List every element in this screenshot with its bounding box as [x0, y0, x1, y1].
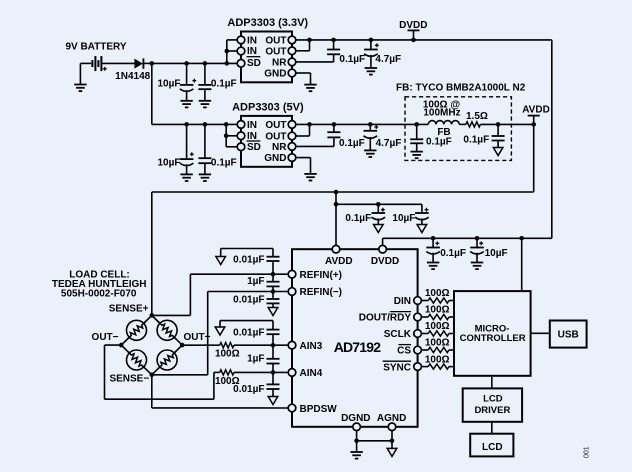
label 10µF (C1) [158, 78, 181, 89]
svg-text:10µF: 10µF [485, 248, 508, 259]
svg-text:SENSE+: SENSE+ [109, 304, 149, 315]
label USB [558, 329, 579, 340]
label ADP3303 (5V) [232, 102, 304, 114]
resistor R2 100Ω (DIN) [421, 298, 454, 303]
label 4.7µF (C8) [376, 138, 402, 149]
capacitor C4 4.7µF [364, 38, 379, 68]
wire OUT- to AIN4 [105, 345, 289, 399]
U3 pin SCLK [384, 329, 422, 340]
label 1µF (C19) [247, 354, 264, 365]
U3 pin AIN4 [288, 368, 323, 379]
svg-text:0.1µF: 0.1µF [440, 248, 466, 259]
label 100Ω (R8) [215, 376, 240, 387]
svg-text:100Ω: 100Ω [425, 354, 450, 365]
svg-text:0.1µF: 0.1µF [339, 138, 365, 149]
svg-text:OUT: OUT [265, 120, 286, 131]
regulator U1 ADP3303-3.3 box [241, 32, 292, 83]
microcontroller box [454, 291, 531, 376]
capacitor C9 0.1µF (FB left) [410, 122, 423, 152]
ground (U2 GND earth) [304, 174, 316, 181]
U2 pin OUT (b) [265, 132, 295, 143]
label 100Ω (R6) [425, 354, 450, 365]
svg-text:LCD: LCD [483, 393, 503, 404]
svg-text:10µF: 10µF [158, 158, 181, 169]
U3 pin DIN [394, 296, 422, 307]
svg-text:FB: TYCO BMB2A1000L N2: FB: TYCO BMB2A1000L N2 [396, 83, 526, 94]
svg-text:1µF: 1µF [247, 276, 264, 287]
capacitor C6 0.1µF [198, 122, 211, 174]
wire DGND/AGND tie [354, 431, 394, 452]
svg-text:DVDD: DVDD [371, 256, 399, 267]
ground (C6 earth) [199, 174, 211, 181]
svg-text:0.1µF: 0.1µF [463, 135, 489, 146]
svg-text:LCD: LCD [482, 442, 503, 453]
label 0.01µF (C17) [233, 295, 264, 306]
label 0.01µF (C18) [233, 327, 264, 338]
ground (C4 earth) [365, 68, 377, 75]
svg-text:10µF: 10µF [158, 78, 181, 89]
svg-text:OUT−: OUT− [92, 332, 119, 343]
wire micro supply branch [519, 236, 524, 291]
label OUT- [92, 332, 119, 343]
svg-text:AD7192: AD7192 [334, 339, 382, 355]
U3 pin AVDD [325, 245, 353, 267]
capacitor C13 0.1µF (DVDD) [426, 236, 440, 263]
node OUT+ [180, 343, 185, 348]
resistor R3 100Ω (DOUT) [421, 314, 454, 319]
svg-text:0.01µF: 0.01µF [233, 295, 264, 306]
label 100Ω (R4) [425, 321, 450, 332]
svg-text:9V BATTERY: 9V BATTERY [65, 42, 126, 53]
ground (C14 earth) [471, 263, 483, 270]
capacitor C15 0.01µF (REFIN+) [221, 249, 280, 277]
wire micro to LCD driver [491, 376, 493, 389]
FB network dashed box [405, 97, 511, 161]
svg-text:100MHz: 100MHz [423, 107, 460, 118]
label LCD DRIVER [474, 393, 510, 416]
label SENSE+ [109, 304, 149, 315]
U1 pin GND [264, 69, 296, 80]
U1 pin NR [272, 57, 296, 68]
ground (C1 earth) [180, 101, 192, 108]
svg-text:SYNC: SYNC [383, 362, 411, 373]
svg-text:SD: SD [247, 58, 261, 69]
U1 pin IN (2) [237, 46, 257, 57]
wire OUT+ to AIN3 [182, 344, 288, 346]
label AD7192 [334, 339, 382, 355]
U1 pin SD (3) [237, 57, 261, 69]
U1 pin OUT (a) [265, 35, 295, 46]
capacitor C17 0.01µF (REFIN-) [267, 289, 280, 307]
ground (C5 earth) [180, 174, 192, 181]
label 0.1µF (C3) [339, 54, 365, 65]
U2 pin IN (2) [237, 131, 257, 142]
ground (C11 triangle) [374, 225, 384, 233]
resistor R1 1.5Ω [466, 122, 481, 127]
label 10µF (C12) [392, 213, 415, 224]
power AVDD symbol [522, 104, 550, 126]
svg-text:DVDD: DVDD [399, 20, 427, 31]
label 0.1µF (C11) [345, 213, 371, 224]
label 0.01µF (C15) [233, 254, 264, 265]
U2 pin IN (1) [237, 120, 257, 131]
label 0.1µF (C13) [440, 248, 466, 259]
wire micro to USB [531, 332, 550, 334]
wire U1 GND [296, 73, 311, 85]
label 100Ω (R2) [425, 288, 450, 299]
svg-text:0.01µF: 0.01µF [233, 384, 264, 395]
wire 9V rail row2 [152, 123, 238, 125]
capacitor C10 0.1µF (FB right) [492, 122, 505, 147]
svg-text:0.1µF: 0.1µF [339, 54, 365, 65]
label 0.01µF (C20) [233, 384, 264, 395]
svg-text:0.1µF: 0.1µF [211, 158, 237, 169]
svg-text:0.1µF: 0.1µF [211, 78, 237, 89]
ground (AGND triangle) [387, 448, 397, 456]
label 9V BATTERY [65, 42, 126, 53]
resistor R4 100Ω (SCLK) [421, 331, 454, 336]
label LOAD CELL: TEDEA HUNTLEIGH 505H-0002-F070 [52, 269, 147, 299]
svg-text:DIN: DIN [394, 296, 411, 307]
U3 pin CS [397, 345, 421, 357]
svg-text:4.7µF: 4.7µF [375, 54, 401, 65]
svg-text:FB: FB [437, 127, 450, 138]
label 100Ω @ 100MHz [423, 100, 461, 119]
label 0.1µF (C2) [211, 78, 237, 89]
U3 pin AIN3 [288, 341, 323, 352]
node diode output junction [150, 61, 155, 66]
U3 pin SYNC [383, 361, 422, 373]
svg-text:GND: GND [264, 69, 286, 80]
svg-text:REFIN(+): REFIN(+) [300, 270, 343, 281]
U2 pin SD (3) [237, 141, 261, 153]
wire SENSE- to REFIN(-) [152, 292, 288, 375]
node SENSE- [150, 373, 155, 378]
svg-text:IN: IN [247, 120, 257, 131]
svg-text:0.01µF: 0.01µF [233, 254, 264, 265]
svg-text:AIN3: AIN3 [300, 341, 323, 352]
svg-text:100Ω: 100Ω [425, 305, 450, 316]
wire DVDD pin branch [382, 238, 384, 245]
U3 pin DVDD [371, 245, 399, 267]
svg-text:DGND: DGND [341, 413, 370, 424]
wire AVDD to bridge [151, 192, 153, 315]
svg-text:1.5Ω: 1.5Ω [466, 111, 488, 122]
wire U1 OUT2 join [296, 38, 312, 51]
node SENSE+ [150, 313, 155, 318]
svg-text:AVDD: AVDD [325, 256, 353, 267]
wire AVDD cap line [336, 203, 422, 205]
label 100Ω (R7) [215, 349, 240, 360]
U3 pin REFIN(&#8722;) [288, 287, 342, 298]
svg-text:OUT+: OUT+ [184, 332, 211, 343]
resistor R7 100Ω (AIN3) [220, 343, 234, 348]
svg-text:100Ω: 100Ω [425, 338, 450, 349]
ADC U3 AD7192 box [292, 249, 418, 427]
label 10µF (C5) [158, 158, 181, 169]
svg-text:IN: IN [247, 131, 257, 142]
label OUT+ [184, 332, 211, 343]
label 1µF (C16) [247, 276, 264, 287]
node OUT- [119, 343, 124, 348]
capacitor C7 0.1µF (NR row2) [296, 122, 341, 146]
wire 9V rail row1 [152, 62, 238, 64]
svg-text:100Ω: 100Ω [425, 321, 450, 332]
svg-text:IN: IN [247, 35, 257, 46]
capacitor C16 1µF (REFIN) [267, 274, 280, 291]
label 0.1µF (C10) [463, 135, 489, 146]
svg-text:SENSE−: SENSE− [109, 373, 149, 384]
svg-text:SD: SD [247, 142, 261, 153]
svg-text:BPDSW: BPDSW [300, 404, 338, 415]
label FB [437, 127, 450, 138]
regulator U2 ADP3303-5 box [241, 116, 292, 167]
ground (C9 earth) [411, 152, 423, 159]
U2 pin GND [264, 153, 296, 164]
ground (U1 GND earth) [304, 85, 316, 92]
svg-text:CONTROLLER: CONTROLLER [460, 333, 526, 344]
resistor R5 100Ω (CS) [421, 347, 454, 352]
load-cell bridge element (top-left) [127, 320, 147, 340]
ground (C2 earth) [199, 101, 211, 108]
svg-text:AVDD: AVDD [522, 104, 550, 115]
U3 pin REFIN(+) [288, 270, 342, 281]
wire SENSE- to BPDSW [152, 375, 288, 408]
wire DVDD cap line [383, 237, 552, 239]
label SENSE- [109, 373, 149, 384]
ground (C20 triangle) [268, 397, 278, 405]
svg-text:NR: NR [272, 142, 287, 153]
svg-text:CS: CS [397, 346, 411, 357]
ground (C18 triangle) [215, 327, 225, 335]
ground (battery earth) [74, 63, 86, 91]
label 100Ω (R3) [425, 305, 450, 316]
label 10µF (C14) [485, 248, 508, 259]
wire U2 input connector [224, 122, 238, 147]
label 100Ω (R5) [425, 338, 450, 349]
wire DVDD trunk right [551, 40, 553, 238]
svg-text:AIN4: AIN4 [300, 368, 323, 379]
wire U2 OUT2 join [296, 122, 312, 136]
svg-text:USB: USB [558, 329, 579, 340]
capacitor C3 0.1µF (NR row1) [296, 38, 341, 62]
svg-text:0.1µF: 0.1µF [345, 213, 371, 224]
ground (C17 triangle) [268, 308, 278, 316]
ground (C13 earth) [427, 263, 439, 270]
svg-text:REFIN(−): REFIN(−) [300, 287, 343, 298]
capacitor C11 0.1µF (AVDD) [372, 202, 386, 225]
wire drop to 5V row [151, 63, 153, 124]
capacitor C12 10µF (AVDD) [415, 204, 429, 224]
svg-text:0.1µF: 0.1µF [426, 136, 452, 147]
USB box [550, 321, 587, 348]
load-cell bridge element (bottom-left) [127, 350, 147, 370]
capacitor C18 0.01µF (AIN3) [220, 321, 280, 348]
svg-text:OUT: OUT [265, 35, 286, 46]
svg-text:ADP3303 (5V): ADP3303 (5V) [232, 102, 304, 114]
svg-text:AGND: AGND [377, 413, 406, 424]
capacitor C14 10µF (DVDD) [470, 236, 484, 263]
diode D1 1N4148 [134, 58, 151, 68]
svg-text:DOUT/RDY: DOUT/RDY [359, 313, 412, 324]
LCD driver box [463, 388, 522, 421]
svg-text:GND: GND [264, 153, 286, 164]
svg-text:SCLK: SCLK [384, 329, 412, 340]
label FB: TYCO BMB2A1000L N2 [396, 83, 526, 94]
resistor R6 100Ω (SYNC) [421, 364, 454, 369]
ground (DGND earth) [350, 452, 362, 459]
wire AVDD pin branch [334, 192, 339, 246]
ground (C8 earth) [364, 150, 376, 157]
svg-text:NR: NR [272, 57, 287, 68]
wire 5V output rail [296, 123, 534, 125]
label figure number 001 [584, 446, 591, 458]
wire AVDD drop [533, 124, 535, 192]
label 0.1µF (C7) [339, 138, 365, 149]
label 1.5Ω [466, 111, 488, 122]
svg-text:ADP3303 (3.3V): ADP3303 (3.3V) [227, 17, 308, 29]
svg-text:100Ω: 100Ω [215, 349, 240, 360]
svg-text:DRIVER: DRIVER [474, 405, 510, 416]
LCD box [470, 434, 513, 457]
capacitor C1 10µF [180, 61, 196, 101]
capacitor C2 0.1µF [198, 61, 211, 101]
ground (C12 triangle) [417, 225, 427, 233]
svg-text:100Ω: 100Ω [425, 288, 450, 299]
svg-text:1µF: 1µF [247, 354, 264, 365]
svg-text:10µF: 10µF [392, 213, 415, 224]
wire bridge diamond [121, 315, 182, 374]
ground (C15 triangle) [216, 257, 226, 265]
wire LCD driver to LCD [491, 422, 493, 434]
svg-text:505H-0002-F070: 505H-0002-F070 [61, 288, 137, 299]
svg-text:OUT: OUT [265, 46, 286, 57]
svg-text:0.01µF: 0.01µF [233, 327, 264, 338]
load-cell bridge element (top-right) [157, 320, 177, 340]
capacitor C19 1µF (AIN) [267, 345, 280, 375]
capacitor C8 4.7µF [364, 122, 379, 150]
U1 pin IN (1) [237, 35, 257, 46]
load-cell bridge element (bottom-right) [157, 350, 177, 370]
battery BT1 9V [80, 56, 134, 71]
U3 pin BPDSW [288, 404, 337, 415]
label ADP3303 (3.3V) [227, 17, 308, 29]
U3 pin DOUT/RDY [359, 312, 422, 324]
resistor R8 100Ω (AIN4) [220, 370, 234, 375]
power DVDD symbol [399, 20, 427, 42]
ground (C10 analog triangle) [493, 148, 503, 156]
U3 pin DGND [341, 413, 370, 431]
wire U2 GND [296, 158, 311, 174]
U1 pin OUT (b) [265, 46, 295, 57]
label 1N4148 [115, 71, 150, 82]
label MICRO-CONTROLLER [460, 324, 526, 344]
ferrite bead FB [428, 121, 459, 125]
label 4.7µF (C4) [375, 54, 401, 65]
U2 pin NR [272, 142, 296, 153]
svg-text:1N4148: 1N4148 [115, 71, 150, 82]
label 0.1µF (C9) [426, 136, 452, 147]
wire SENSE+ to REFIN(+) [152, 274, 288, 315]
svg-text:OUT: OUT [265, 132, 286, 143]
wire 3.3V output rail [296, 39, 552, 41]
wire U1 input connector [225, 40, 239, 66]
label LCD [482, 442, 503, 453]
capacitor C20 0.01µF (AIN4) [267, 372, 280, 396]
label 0.1µF (C6) [211, 158, 237, 169]
wire AVDD rail [152, 191, 534, 193]
svg-text:IN: IN [247, 46, 257, 57]
U2 pin OUT (a) [265, 120, 295, 131]
svg-text:001: 001 [584, 446, 591, 458]
svg-text:4.7µF: 4.7µF [376, 138, 402, 149]
capacitor C5 10µF [180, 122, 194, 174]
U3 pin AGND [377, 413, 406, 431]
node AVDD branch [334, 190, 339, 195]
